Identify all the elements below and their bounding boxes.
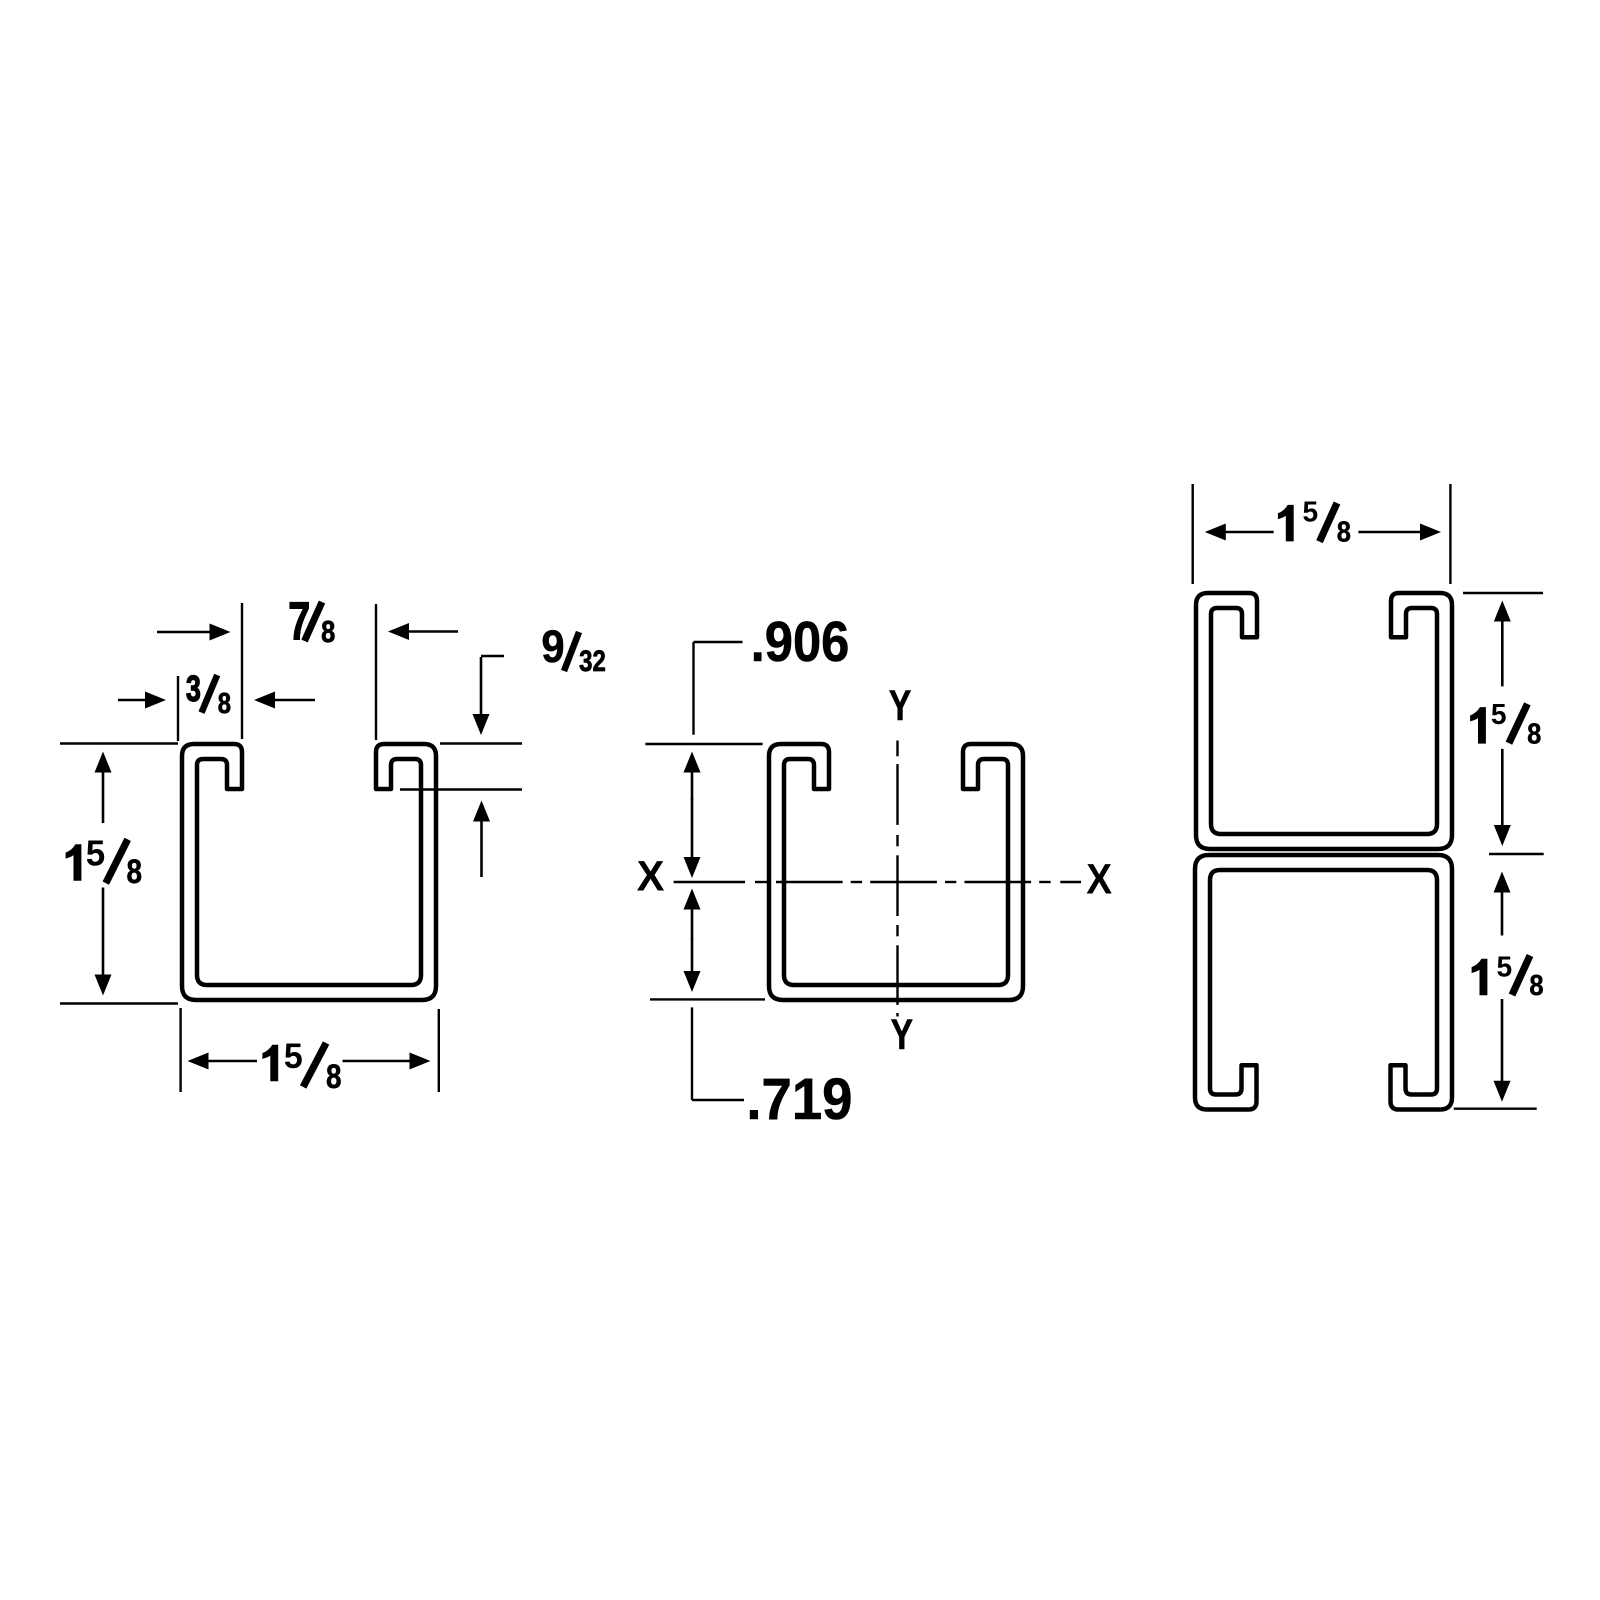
- svg-text:5: 5: [86, 833, 105, 874]
- svg-text:5: 5: [1491, 699, 1507, 731]
- svg-text:5: 5: [1302, 496, 1318, 528]
- svg-text:.719: .719: [746, 1066, 852, 1131]
- svg-text:Y: Y: [889, 682, 912, 730]
- svg-text:8: 8: [1527, 717, 1541, 750]
- svg-text:9: 9: [541, 622, 564, 672]
- svg-text:8: 8: [1337, 515, 1351, 548]
- svg-text:5: 5: [1496, 951, 1512, 983]
- svg-text:X: X: [637, 852, 665, 900]
- svg-text:8: 8: [127, 852, 143, 890]
- svg-text:7: 7: [288, 592, 310, 652]
- svg-text:5: 5: [284, 1038, 303, 1077]
- svg-text:3: 3: [186, 668, 201, 709]
- svg-text:8: 8: [321, 615, 335, 650]
- svg-text:8: 8: [326, 1057, 342, 1095]
- svg-text:8: 8: [1529, 968, 1543, 1001]
- svg-text:8: 8: [218, 687, 231, 720]
- svg-text:Y: Y: [891, 1011, 914, 1059]
- svg-text:.906: .906: [751, 610, 850, 673]
- svg-text:X: X: [1086, 854, 1112, 902]
- svg-text:32: 32: [579, 643, 606, 677]
